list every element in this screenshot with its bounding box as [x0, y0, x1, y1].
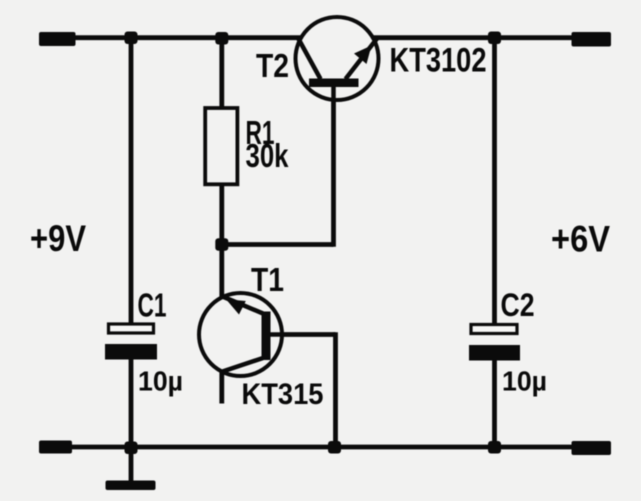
svg-text:+9V: +9V — [30, 218, 86, 259]
svg-text:KT3102: KT3102 — [390, 42, 487, 80]
svg-text:KT315: KT315 — [242, 378, 324, 411]
svg-text:C2: C2 — [501, 287, 535, 323]
svg-text:+6V: +6V — [551, 219, 610, 260]
svg-text:10µ: 10µ — [502, 366, 547, 397]
svg-text:T2: T2 — [256, 47, 289, 84]
svg-text:10µ: 10µ — [138, 366, 183, 397]
svg-text:C1: C1 — [138, 287, 167, 324]
svg-text:30k: 30k — [246, 137, 290, 174]
svg-text:T1: T1 — [251, 261, 284, 298]
